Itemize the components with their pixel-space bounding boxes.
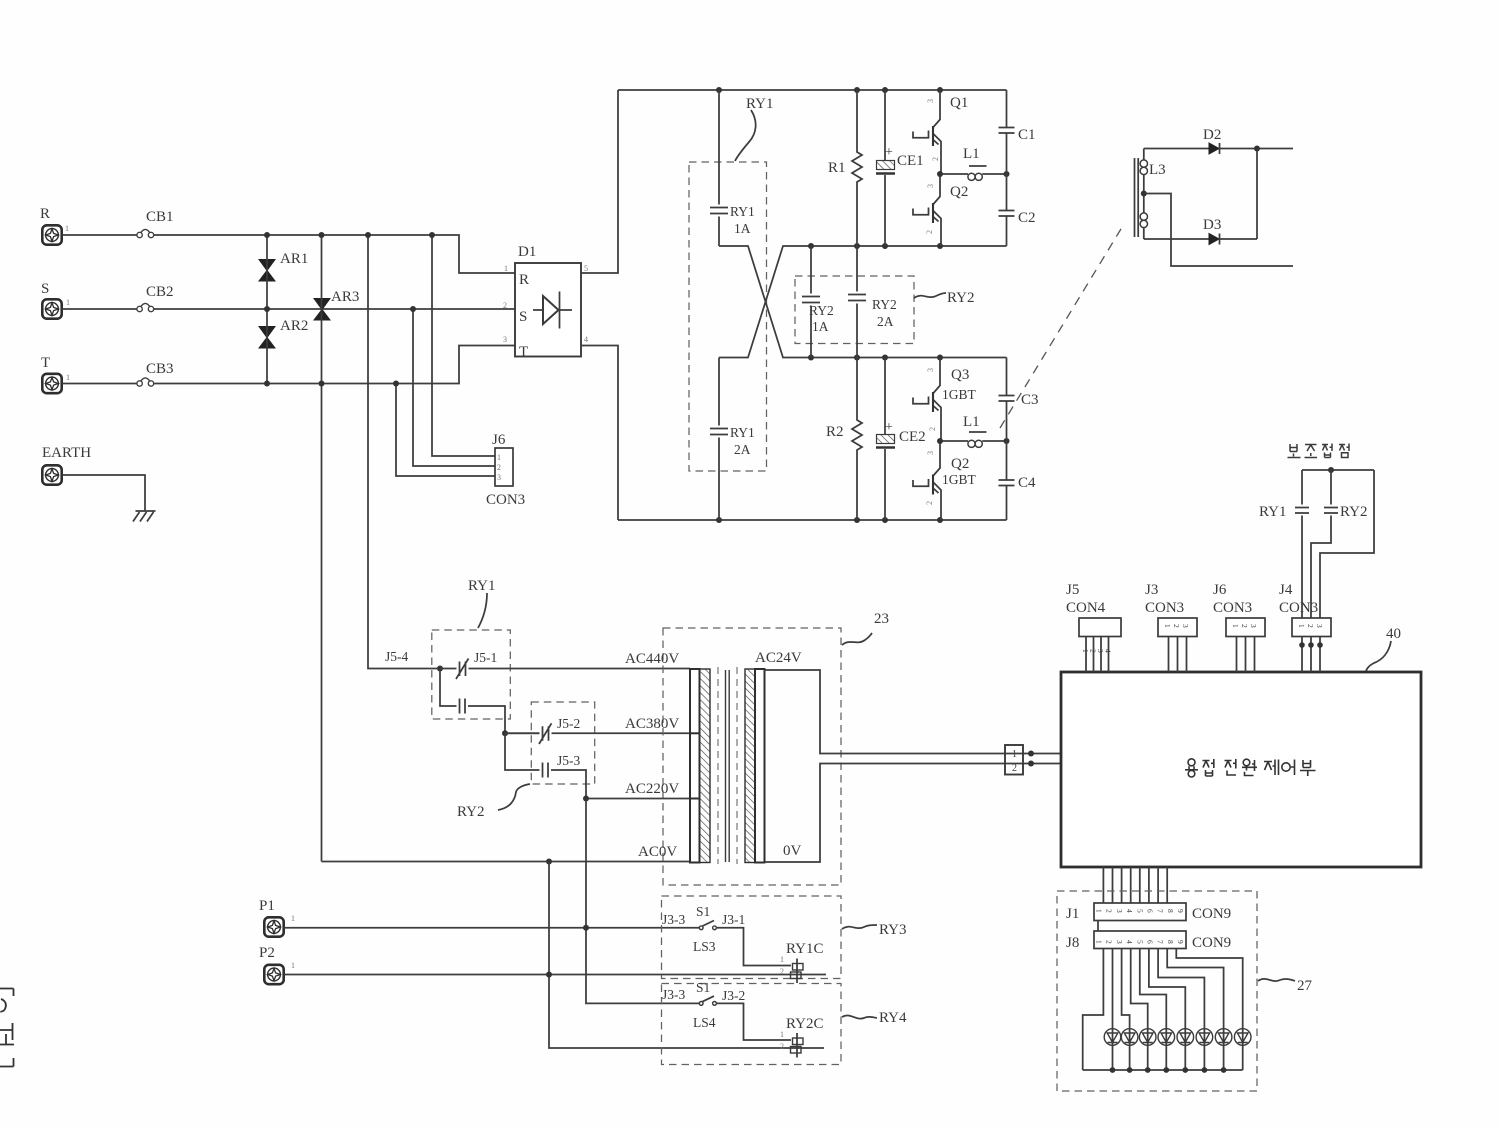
svg-text:1: 1 [291, 914, 295, 923]
svg-text:6: 6 [1146, 909, 1155, 913]
svg-text:AC380V: AC380V [625, 716, 679, 732]
svg-text:1: 1 [66, 373, 70, 382]
svg-text:J4: J4 [1279, 582, 1293, 598]
wire J8 pin9 to LED8 [1176, 949, 1242, 1071]
svg-text:CON9: CON9 [1192, 935, 1231, 951]
terminal R [40, 206, 69, 245]
wire earth [62, 475, 145, 511]
svg-text:P1: P1 [259, 898, 275, 914]
transformer core [718, 667, 737, 864]
dashed box 27 [1057, 891, 1257, 1091]
svg-text:2: 2 [780, 1042, 784, 1051]
node P2 branch [546, 972, 552, 978]
wire LS4 to RY2C [717, 1003, 792, 1040]
svg-text:3: 3 [926, 99, 935, 103]
node J5-4 [437, 666, 443, 672]
svg-text:3: 3 [926, 368, 935, 372]
junction dots LED bus [1110, 1067, 1227, 1073]
connector J6 CON3 [486, 432, 525, 508]
svg-text:L1: L1 [963, 146, 980, 162]
svg-text:CON3: CON3 [1279, 600, 1318, 616]
svg-text:D1: D1 [518, 244, 536, 260]
svg-text:J5-4: J5-4 [385, 649, 408, 664]
wire D1 pin4 out [581, 346, 618, 521]
svg-text:4: 4 [584, 335, 588, 344]
connector J5 CON4 [1066, 582, 1121, 672]
label RY2 lower with leader [457, 784, 530, 820]
svg-text:RY2C: RY2C [786, 1016, 824, 1032]
svg-text:3: 3 [1115, 909, 1124, 913]
svg-text:J5: J5 [1066, 582, 1079, 598]
svg-text:J8: J8 [1066, 935, 1079, 951]
svg-text:AC440V: AC440V [625, 651, 679, 667]
label RY1 lower with leader [468, 578, 496, 628]
svg-text:1GBT: 1GBT [942, 387, 977, 402]
svg-text:1: 1 [1012, 749, 1017, 760]
svg-text:RY2: RY2 [872, 297, 897, 312]
svg-text:P2: P2 [259, 945, 275, 961]
contact RY1 aux [1259, 470, 1309, 618]
svg-text:4: 4 [1125, 909, 1134, 913]
wire AR1-AR2 column [266, 235, 268, 384]
wire AC220V down to LS4 [586, 799, 699, 1004]
inductor L1 upper [940, 146, 1007, 180]
svg-text:R2: R2 [826, 424, 844, 440]
label RY3 with leader [842, 922, 907, 938]
svg-text:LS3: LS3 [693, 939, 716, 954]
capacitor C2 [999, 174, 1036, 246]
contact RY1 NO branch [440, 669, 505, 734]
svg-text:C4: C4 [1018, 475, 1036, 491]
varistor AR2 [259, 318, 308, 348]
wire T to J6 pin3 [396, 384, 495, 477]
switch S1 LS3 [662, 904, 745, 954]
wire cross upper [719, 246, 1007, 358]
node D2 out [1254, 146, 1260, 152]
ground [133, 511, 156, 522]
label RY2 with leader [914, 290, 975, 306]
svg-text:J5-3: J5-3 [557, 753, 580, 768]
diode D2 [1144, 127, 1293, 154]
junction dots T line [264, 381, 399, 387]
varistor AR3 [314, 289, 359, 320]
svg-text:3: 3 [503, 335, 507, 344]
wire J8 pin7 to LED6 [1158, 949, 1204, 1071]
svg-text:3: 3 [1249, 624, 1258, 628]
svg-text:2: 2 [780, 967, 784, 976]
svg-text:4: 4 [1104, 649, 1113, 653]
contact J5-2 (NC) [505, 716, 690, 744]
contact RY2 2A [848, 246, 897, 358]
svg-text:RY2: RY2 [947, 290, 975, 306]
svg-text:2: 2 [1105, 909, 1114, 913]
node L3 tap [1141, 191, 1147, 197]
terminal P2 [259, 945, 295, 984]
connector J4 CON3 [1279, 582, 1331, 672]
wire LED bus [1083, 1069, 1243, 1071]
node AC220V [583, 796, 589, 802]
svg-text:RY1: RY1 [468, 578, 496, 594]
svg-text:+: + [885, 145, 893, 160]
contact RY2 aux [1311, 470, 1368, 618]
wire cross lower [719, 246, 1007, 358]
junction dots secondary wires [1028, 751, 1034, 767]
transistor Q1 [913, 90, 968, 174]
svg-text:3: 3 [1315, 624, 1324, 628]
svg-text:AC220V: AC220V [625, 781, 679, 797]
dashed leader to L3 [1000, 224, 1124, 428]
svg-text:AR3: AR3 [331, 289, 359, 305]
svg-text:CB1: CB1 [146, 209, 174, 225]
breaker CB3 [137, 361, 174, 386]
wire column to J5-4 [368, 235, 440, 669]
svg-text:3: 3 [926, 451, 935, 455]
svg-text:8: 8 [1166, 940, 1175, 944]
svg-text:2: 2 [1012, 763, 1017, 774]
label 23 with leader [842, 611, 889, 645]
svg-text:1: 1 [1095, 909, 1104, 913]
wire D1 pin5 out [581, 90, 618, 273]
junction dots R line [264, 232, 435, 238]
wire J1 to J8 [1097, 921, 1099, 932]
breaker CB1 [137, 209, 174, 238]
relay box RY3 (dashed) [662, 896, 842, 979]
wire R to CB1 [62, 234, 137, 236]
svg-text:2: 2 [1306, 624, 1315, 628]
svg-text:3: 3 [497, 473, 501, 482]
svg-text:1A: 1A [734, 221, 751, 236]
svg-text:1: 1 [780, 1030, 784, 1039]
capacitor CE2 (electrolytic) [876, 358, 926, 521]
svg-text:CON9: CON9 [1192, 906, 1231, 922]
label 27 with leader [1258, 978, 1313, 994]
svg-text:2A: 2A [877, 314, 894, 329]
wire AC380V [505, 732, 540, 734]
svg-text:J6: J6 [1213, 582, 1227, 598]
svg-text:J5-1: J5-1 [474, 650, 497, 665]
svg-text:RY1: RY1 [746, 96, 774, 112]
wire D2 output branch [1256, 149, 1258, 240]
svg-text:1: 1 [780, 955, 784, 964]
label 용접 전원 제어부 [1185, 759, 1316, 777]
label 보조접점 (aux contact) [1288, 444, 1350, 458]
LED row [1104, 1029, 1251, 1046]
svg-text:6: 6 [1146, 940, 1155, 944]
wire J8 pin2 to LED1 [1112, 949, 1114, 1071]
svg-text:9: 9 [1176, 909, 1185, 913]
wire J8 pin5 to LED4 [1140, 949, 1167, 1071]
svg-text:CB3: CB3 [146, 361, 174, 377]
connector J1 CON9 [1066, 903, 1231, 922]
diode D3 [1144, 217, 1257, 245]
transistor Q3 [913, 358, 977, 442]
svg-text:1GBT: 1GBT [942, 472, 977, 487]
svg-text:RY2: RY2 [1340, 504, 1368, 520]
wire P1 line [284, 927, 699, 929]
contact RY1 2A [710, 358, 755, 521]
svg-text:2: 2 [497, 463, 501, 472]
svg-text:LS4: LS4 [693, 1015, 716, 1030]
node P1 branch [583, 925, 589, 931]
svg-text:R1: R1 [828, 160, 846, 176]
contact J5-1 (NC) [440, 650, 690, 679]
junction dots S line [264, 306, 416, 312]
svg-text:RY1C: RY1C [786, 941, 824, 957]
contact RY2 1A [802, 246, 834, 358]
node AC0V branch [546, 859, 552, 865]
wire R phase [154, 235, 515, 273]
wire top rail [618, 89, 1007, 91]
wire bottom rail [618, 519, 1007, 521]
svg-text:Q2: Q2 [950, 184, 968, 200]
svg-text:AR2: AR2 [280, 318, 308, 334]
transformer primary winding [690, 669, 710, 863]
transformer box 23 (dashed) [663, 628, 841, 885]
svg-text:40: 40 [1386, 626, 1401, 642]
svg-text:Q1: Q1 [950, 95, 968, 111]
svg-text:J3-1: J3-1 [722, 912, 745, 927]
svg-text:2A: 2A [734, 442, 751, 457]
svg-text:1: 1 [497, 453, 501, 462]
svg-text:5: 5 [584, 264, 588, 273]
wire J8 pin6 to LED5 [1149, 949, 1185, 1071]
wire AR3 column long [321, 235, 323, 862]
svg-text:2: 2 [925, 501, 934, 505]
wire R to J6 pin1 [432, 235, 495, 456]
svg-text:RY1: RY1 [730, 204, 755, 219]
svg-text:J3-3: J3-3 [662, 987, 685, 1002]
wire aux top rail [1302, 469, 1374, 471]
relay contact box RY2 (dashed) [795, 276, 914, 344]
svg-text:2: 2 [1105, 940, 1114, 944]
control box 40 [1061, 672, 1421, 867]
svg-text:C2: C2 [1018, 210, 1036, 226]
svg-text:5: 5 [1135, 909, 1144, 913]
svg-text:J6: J6 [492, 432, 506, 448]
rectifier D1 [503, 244, 588, 360]
svg-text:1: 1 [1231, 624, 1240, 628]
svg-text:0V: 0V [783, 843, 802, 859]
svg-text:3: 3 [1115, 940, 1124, 944]
connector J6 CON3 right [1213, 582, 1265, 672]
label RY4 with leader [842, 1010, 907, 1026]
svg-text:23: 23 [874, 611, 889, 627]
svg-text:J3: J3 [1145, 582, 1158, 598]
varistor AR1 [259, 251, 308, 281]
svg-text:C1: C1 [1018, 127, 1036, 143]
contact J5-3 (NO) [505, 733, 586, 798]
svg-text:1: 1 [66, 298, 70, 307]
svg-text:R: R [40, 206, 50, 222]
capacitor C3 [999, 358, 1039, 442]
wire J8 pin4 to LED3 [1131, 949, 1148, 1071]
svg-text:T: T [519, 344, 528, 360]
svg-text:D2: D2 [1203, 127, 1221, 143]
svg-text:Q2: Q2 [951, 456, 969, 472]
svg-text:2: 2 [1172, 624, 1181, 628]
svg-text:1: 1 [291, 961, 295, 970]
label RY1 with leader [735, 96, 774, 161]
svg-text:CON3: CON3 [486, 492, 525, 508]
wire T phase [154, 346, 515, 384]
svg-text:8: 8 [1166, 909, 1175, 913]
svg-text:CON3: CON3 [1213, 600, 1252, 616]
terminal EARTH [42, 445, 91, 485]
terminal T [41, 355, 70, 393]
svg-text:9: 9 [1176, 940, 1185, 944]
svg-text:1: 1 [504, 264, 508, 273]
svg-text:CE2: CE2 [899, 429, 926, 445]
svg-text:+: + [885, 420, 893, 435]
transistor Q2 upper [913, 174, 968, 246]
relay contact box RY1 (dashed) [689, 162, 767, 471]
svg-text:3: 3 [1181, 624, 1190, 628]
svg-text:S1: S1 [696, 980, 710, 995]
svg-text:S: S [519, 309, 527, 325]
junction dots mid rail upper [808, 243, 943, 249]
svg-text:RY1: RY1 [730, 425, 755, 440]
wire secondary bottom [765, 764, 1062, 863]
svg-text:2: 2 [1240, 624, 1249, 628]
terminal S [41, 281, 70, 319]
wire T to CB3 [62, 383, 137, 385]
capacitor CE1 (electrolytic) [876, 90, 924, 246]
wire LS3 to RY1C [717, 928, 792, 966]
junction dots bottom rail [716, 517, 943, 523]
svg-text:S1: S1 [696, 904, 710, 919]
wire S to J6 pin2 [413, 309, 495, 466]
svg-text:CB2: CB2 [146, 284, 174, 300]
wire P2 line [284, 974, 826, 976]
node aux [1328, 467, 1334, 473]
resistor R1 [828, 90, 862, 246]
svg-text:3: 3 [926, 184, 935, 188]
capacitor C1 [999, 90, 1036, 174]
svg-text:1: 1 [65, 224, 69, 233]
svg-text:CON4: CON4 [1066, 600, 1106, 616]
node J5-2 [502, 730, 508, 736]
wire AC0V down to RY2C [549, 862, 824, 1049]
svg-text:1: 1 [1095, 940, 1104, 944]
svg-text:4: 4 [1125, 940, 1134, 944]
relay box RY4 (dashed) [662, 984, 842, 1065]
relay box RY1 lower (dashed) [432, 630, 511, 719]
figure label [do 5] partial [0, 989, 14, 1067]
junction dots L1 lower [937, 438, 1010, 444]
svg-text:L1: L1 [963, 414, 980, 430]
wire J8 pin1 to bus [1083, 949, 1104, 1071]
relay coil RY2C [780, 1016, 824, 1058]
connector J3 CON3 [1145, 582, 1197, 672]
wire S to CB2 [62, 308, 137, 310]
svg-text:R: R [519, 272, 529, 288]
svg-text:J3-3: J3-3 [662, 912, 685, 927]
svg-text:S: S [41, 281, 49, 297]
svg-text:2: 2 [928, 427, 937, 431]
connector J8 CON9 [1066, 931, 1231, 951]
breaker CB2 [137, 284, 174, 312]
svg-text:CON3: CON3 [1145, 600, 1184, 616]
resistor R2 [826, 358, 862, 521]
svg-text:J5-2: J5-2 [557, 716, 580, 731]
svg-text:7: 7 [1156, 940, 1165, 944]
transformer L3 [1135, 149, 1166, 240]
wire AC220V [586, 798, 690, 800]
svg-text:2: 2 [931, 157, 940, 161]
svg-text:L3: L3 [1149, 162, 1166, 178]
wire J8 pin8 to LED7 [1167, 949, 1223, 1071]
svg-text:7: 7 [1156, 909, 1165, 913]
transistor Q2 lower [913, 441, 977, 520]
wire J8 pin3 to LED2 [1122, 949, 1130, 1071]
transformer secondary winding [745, 669, 765, 863]
svg-text:RY1: RY1 [1259, 504, 1287, 520]
relay box RY2 lower (dashed) [531, 702, 594, 784]
inductor L1 lower [940, 414, 1007, 447]
svg-text:CE1: CE1 [897, 153, 924, 169]
svg-text:1: 1 [1163, 624, 1172, 628]
switch S1 LS4 [662, 980, 745, 1030]
svg-text:T: T [41, 355, 50, 371]
svg-text:J1: J1 [1066, 906, 1079, 922]
svg-text:1: 1 [1297, 624, 1306, 628]
wire AC0V [322, 861, 691, 863]
svg-text:27: 27 [1297, 978, 1313, 994]
wires control box to J1 [1103, 867, 1167, 903]
svg-text:D3: D3 [1203, 217, 1221, 233]
svg-text:C3: C3 [1021, 392, 1039, 408]
wire S phase [154, 308, 515, 310]
contact RY1 1A [710, 90, 755, 246]
relay coil RY1C [780, 941, 824, 983]
connector 1-2 left of control box [1005, 745, 1023, 775]
svg-text:2: 2 [503, 301, 507, 310]
label 40 with leader [1366, 626, 1401, 671]
svg-text:5: 5 [1135, 940, 1144, 944]
svg-text:RY2: RY2 [809, 303, 834, 318]
wire secondary top [765, 670, 1062, 754]
svg-text:1A: 1A [812, 319, 829, 334]
wire aux right branch [1320, 470, 1374, 618]
junction dots L1 upper [937, 171, 1010, 177]
svg-text:Q3: Q3 [951, 367, 969, 383]
svg-text:J3-2: J3-2 [722, 988, 745, 1003]
svg-text:RY2: RY2 [457, 804, 485, 820]
terminal P1 [259, 898, 295, 937]
junction dots mid rail lower [808, 355, 943, 361]
svg-text:AC24V: AC24V [755, 650, 802, 666]
svg-text:AC0V: AC0V [638, 844, 677, 860]
svg-text:AR1: AR1 [280, 251, 308, 267]
svg-text:RY4: RY4 [879, 1010, 907, 1026]
capacitor C4 [999, 441, 1037, 520]
svg-text:RY3: RY3 [879, 922, 907, 938]
svg-text:2: 2 [925, 230, 934, 234]
wire L3 center tap out [1144, 194, 1293, 267]
junction dots top rail [716, 87, 943, 93]
svg-text:EARTH: EARTH [42, 445, 91, 461]
junction dots J4 pins [1299, 642, 1323, 648]
